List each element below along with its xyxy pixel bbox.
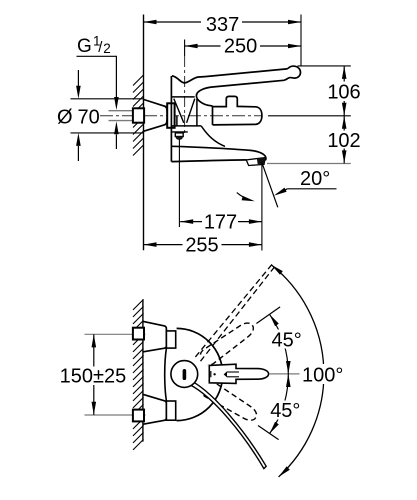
pipe nut in wall [133,108,144,122]
temperature indicator [224,371,227,377]
extension line right (lever tip) [300,15,302,67]
20 degree annotation [262,162,278,208]
cartridge circle [171,361,198,388]
escutcheon cone at wall [144,100,168,132]
top union cylinder [166,331,175,348]
45 degree upper radial line [256,307,280,324]
body column inner lines [171,99,201,126]
bottom union cylinder [166,401,175,420]
45 degree lower radial line [258,426,279,440]
svg-text:106: 106 [327,82,360,104]
body left edge between unions [165,348,167,401]
svg-text:45°: 45° [272,329,302,351]
extension line 250 left [184,40,186,57]
top escutcheon [143,321,166,351]
extension line spout tip [261,165,263,251]
spout bottom edge [171,160,246,162]
cap bottom line [172,96,195,98]
spout outlet (mousseur) [246,158,265,166]
hub tick [210,371,212,377]
body left edge [170,76,172,162]
union centerlines (gray) [85,333,146,335]
dashed lever extreme lines [195,263,275,361]
cartridge housing cylinder [213,96,262,125]
bottom union nut [133,410,144,422]
dimension 250 [185,45,301,47]
svg-text:255: 255 [185,234,218,256]
45 deg upper text [269,330,305,349]
100 deg text [300,364,351,384]
dimension 106 [343,66,345,116]
dimension 337 [144,21,302,23]
svg-text:2: 2 [103,41,111,56]
gray centerline right of capsule [270,373,300,375]
centerline vertical (body axis) [184,56,186,133]
dimension 255 [144,244,262,246]
top union nut [133,328,144,340]
svg-text:45°: 45° [270,400,300,422]
svg-text:100°: 100° [302,364,343,386]
body conical transition [174,99,195,123]
dimension 150+-25 [93,334,95,414]
45 degree lower arc [270,374,289,434]
svg-text:177: 177 [204,211,237,233]
svg-text:G: G [77,36,92,57]
45 degree upper arc [270,314,289,374]
supply pipe [109,111,134,121]
transition curve body to spout [201,126,225,146]
svg-text:20°: 20° [300,168,330,190]
dashed lever ghost lower (45 deg) [201,379,260,424]
45 deg lower text [267,401,304,420]
wall face line [143,15,145,251]
svg-text:Ø: Ø [57,107,73,129]
mounting screw [175,133,183,137]
lever hub and capsule (neutral position) [209,364,268,383]
dimension 177 [180,221,262,223]
long lever blade (solid, down position) [190,382,266,469]
svg-text:337: 337 [206,14,239,36]
G 1/2 leader [77,56,117,97]
lever handle (long medical lever, side view) [196,66,300,106]
svg-text:150±25: 150±25 [60,365,127,387]
wall hatching (plan view) [133,299,144,450]
dashed lever ghost upper (45 deg) [199,318,257,366]
dimension 106/102 extension lines [298,65,351,67]
mounting screw ledge [172,131,188,133]
diameter 70 arrows [77,70,79,86]
wall hatching (top view) [133,75,144,156]
svg-text:250: 250 [224,36,257,58]
extension line 177 left [178,140,180,228]
spout top edge [171,146,266,160]
bottom escutcheon [143,394,166,424]
svg-text:102: 102 [327,130,360,152]
100 degree arc [271,265,324,477]
centerline horizontal (faucet axis) [100,115,262,117]
union nut [167,103,174,128]
dimension 102 [343,116,345,164]
diameter 70 extension lines [71,98,144,100]
wall face line (plan) [142,299,144,441]
body dome arc (plan) [177,328,223,420]
body cap (dome top) [172,76,205,83]
20 degree arc arrow [237,193,251,201]
cartridge slot [183,369,187,380]
svg-text:70: 70 [78,107,100,129]
